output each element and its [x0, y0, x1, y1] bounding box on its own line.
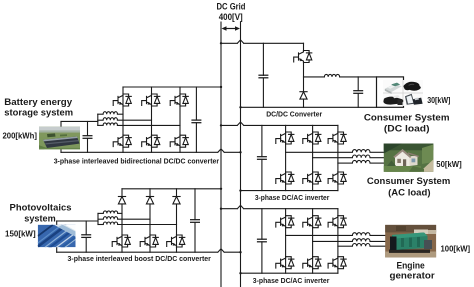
IGBT Q3 top leg3: [170, 94, 188, 106]
capacitor engine inverter: [257, 239, 267, 242]
capacitor battery input: [83, 136, 93, 139]
capacitor buck input: [258, 75, 268, 78]
wire: mid inverter top from left bus, hop over right bus: [221, 122, 338, 125]
IGBT Q4 bottom leg1: [113, 135, 131, 147]
IGBT PV leg2: [140, 235, 158, 247]
leg 3: [179, 87, 181, 152]
leg 1: [121, 189, 123, 252]
IGBT mid top leg2: [303, 132, 321, 144]
leg mid: [303, 63, 305, 108]
wire: battery converter top rail to left bus: [123, 86, 221, 88]
IGBT eng bottom leg2: [303, 257, 321, 269]
phase wire row1: [117, 113, 123, 115]
input cap leads: [262, 43, 264, 75]
diode D3 leg3: [173, 197, 180, 204]
leg 2: [312, 125, 314, 190]
coil ENG3: [352, 244, 370, 247]
coil ENG1: [352, 233, 370, 236]
capacitor mid inverter: [257, 157, 267, 160]
wire: battery converter bottom rail, hop over left bus, to right bus: [61, 149, 241, 152]
battery - stub: [60, 149, 62, 152]
battery energy storage photo: [39, 127, 80, 150]
node: right bus / engine inverter bottom: [239, 272, 241, 274]
IGBT PV leg3: [167, 235, 185, 247]
battery + stub: [60, 122, 62, 127]
node: right bus / DC-DC bottom: [239, 106, 241, 108]
svg-text:Consumer System: Consumer System: [367, 176, 450, 187]
IGBT mid bottom leg1: [276, 172, 294, 184]
svg-text:system: system: [24, 214, 55, 225]
svg-text:DC/DC Converter: DC/DC Converter: [266, 109, 322, 118]
svg-text:3-phase interleaved boost DC/D: 3-phase interleaved boost DC/DC converte…: [68, 254, 211, 263]
PV + stub: [56, 221, 58, 225]
phase wire row3: [117, 124, 180, 126]
node: left bus / battery top rail: [220, 86, 222, 88]
node: left bus / engine inverter top: [220, 208, 222, 210]
coil AC3: [352, 160, 370, 163]
phase wire 2: [313, 157, 353, 159]
DC bus right rail: [240, 22, 242, 287]
diode D1 leg1: [118, 197, 125, 204]
leg 2: [149, 189, 151, 252]
coil AC1: [352, 150, 370, 153]
capacitor PV input: [81, 235, 91, 238]
node: left bus / mid inverter top: [220, 124, 222, 126]
coil L1: [103, 112, 117, 115]
node: right bus / battery bottom rail: [239, 151, 241, 153]
diode D2 leg2: [146, 197, 153, 204]
svg-text:(AC load): (AC load): [388, 187, 430, 198]
DC bus left rail: [220, 22, 222, 287]
battery input wire: [61, 120, 98, 122]
IGBT Q5 bottom leg2: [142, 135, 160, 147]
svg-text:(DC load): (DC load): [384, 124, 430, 135]
coil L2: [103, 118, 117, 121]
IGBT eng top leg3: [328, 216, 346, 228]
wire: engine inverter top from left bus, hop over right bus: [221, 205, 338, 208]
svg-text:400[V]: 400[V]: [219, 12, 243, 22]
output cap leads: [194, 189, 196, 220]
IGBT Q1 top leg1: [113, 94, 131, 106]
consumer AC house photo: [384, 144, 434, 172]
phase wire 2: [313, 240, 353, 242]
IGBT Q6 bottom leg3: [170, 135, 188, 147]
PV photo: [38, 225, 76, 250]
load box: [377, 77, 404, 107]
coil PV L1: [103, 211, 117, 214]
IGBT mid bottom leg3: [328, 172, 346, 184]
capacitor PV output: [190, 220, 200, 223]
coil AC2: [352, 155, 370, 158]
DC grid voltage arrow: [222, 26, 241, 31]
node: left bus / DC-DC top tap: [220, 42, 222, 44]
svg-text:3-phase DC/AC inverter: 3-phase DC/AC inverter: [253, 276, 330, 285]
leg 2: [312, 209, 314, 274]
IGBT PV leg1: [112, 235, 130, 247]
PV - stub: [56, 247, 58, 252]
IGBT mid top leg3: [328, 132, 346, 144]
IGBT eng bottom leg1: [276, 257, 294, 269]
wire: PV bottom rail, hop over left bus, to right bus: [57, 249, 241, 252]
input cap leads: [261, 125, 263, 156]
node: right bus / mid inverter bottom: [239, 189, 241, 191]
leg 3: [176, 189, 178, 252]
svg-text:Battery energy: Battery energy: [4, 97, 73, 108]
svg-text:100[kW]: 100[kW]: [441, 244, 471, 254]
capacitor buck output: [353, 91, 363, 94]
svg-text:DC Grid: DC Grid: [217, 2, 246, 12]
phase wire row2: [117, 119, 151, 121]
svg-text:3-phase interleaved bidirectio: 3-phase interleaved bidirectional DC/DC …: [54, 156, 219, 165]
diode buck freewheel: [300, 92, 307, 99]
IGBT mid top leg1: [276, 132, 294, 144]
phase wire 1: [286, 151, 353, 153]
svg-text:50[kW]: 50[kW]: [436, 159, 462, 169]
node: right bus / PV bottom rail: [239, 251, 241, 253]
svg-text:200[kWh]: 200[kWh]: [3, 131, 38, 141]
consumer DC loads photo collage: [383, 80, 423, 106]
wire: dcdc top tap from left bus, hop over right bus: [221, 40, 304, 43]
IGBT eng bottom leg3: [328, 257, 346, 269]
leg 1: [285, 209, 287, 274]
phase wire row3: [118, 224, 177, 226]
svg-text:Photovoltaics: Photovoltaics: [10, 203, 72, 214]
output cap leads: [195, 87, 197, 120]
coil PV L2: [103, 217, 117, 220]
phase wire to load: [304, 76, 325, 78]
IGBT buck: [294, 51, 312, 63]
node: left bus / PV top rail: [220, 188, 222, 190]
phase wire row1: [118, 212, 122, 214]
svg-text:generator: generator: [390, 271, 436, 282]
phase wire 1: [286, 234, 353, 236]
input cap leads: [261, 209, 263, 239]
coil input bar: [97, 114, 99, 125]
coil ENG2: [352, 239, 370, 242]
leg top: [303, 43, 305, 50]
coil L3: [103, 123, 117, 126]
wire: dcdc bottom from right bus: [241, 106, 377, 108]
leg 3: [337, 209, 339, 274]
wire: mid inverter bottom from right bus: [241, 190, 338, 192]
svg-text:3-phase DC/AC inverter: 3-phase DC/AC inverter: [255, 193, 330, 202]
leg 1: [285, 125, 287, 190]
output cap leads: [357, 77, 359, 91]
capacitor battery output: [191, 120, 201, 123]
coil buck: [324, 74, 339, 77]
leg 2: [151, 87, 153, 152]
phase wire 3: [338, 245, 353, 247]
input cap leads: [85, 221, 87, 235]
wire: engine inverter bottom from right bus: [241, 272, 338, 274]
IGBT eng top leg1: [276, 216, 294, 228]
svg-text:150[kW]: 150[kW]: [5, 229, 36, 239]
IGBT Q2 top leg2: [142, 94, 160, 106]
coil input bar: [97, 213, 99, 224]
leg 3: [337, 125, 339, 190]
input cap leads: [87, 122, 89, 136]
IGBT mid bottom leg2: [303, 172, 321, 184]
coil PV L3: [103, 222, 117, 225]
leg 1: [122, 87, 124, 152]
phase wire 3: [338, 162, 353, 164]
svg-text:30[kW]: 30[kW]: [427, 95, 450, 105]
engine generator photo: [385, 225, 436, 258]
IGBT eng top leg2: [303, 216, 321, 228]
PV input wire: [57, 220, 98, 222]
svg-text:storage system: storage system: [4, 108, 73, 119]
phase wire row2: [118, 218, 150, 220]
wire: PV top rail to left bus: [122, 188, 221, 190]
svg-text:Consumer System: Consumer System: [364, 113, 450, 124]
